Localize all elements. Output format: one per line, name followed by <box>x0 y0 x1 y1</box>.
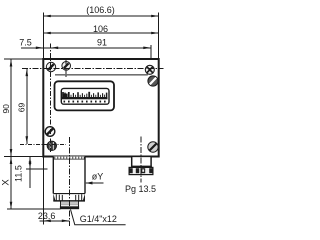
arrow 69 bottom <box>26 136 29 144</box>
dash-dot horizontal centerline through top screws <box>22 68 164 70</box>
ext line y=167.8 (11.5) <box>26 168 48 170</box>
svg-text:(106.6): (106.6) <box>86 5 115 15</box>
arrow 23.6 left <box>43 220 51 223</box>
left dim line 90/X <box>10 59 12 209</box>
top edge extension left <box>4 58 43 60</box>
dimension line 91 <box>51 47 151 49</box>
arrow 106 left <box>43 32 51 35</box>
screw c2 bottom-left lower <box>47 141 56 150</box>
extension line for 91 right <box>150 45 152 75</box>
svg-text:X: X <box>1 179 12 186</box>
G1/4 leader line <box>71 209 126 224</box>
fitting hex band <box>53 194 85 201</box>
svg-text:90: 90 <box>1 104 11 114</box>
arrow 91 left <box>51 47 59 50</box>
svg-text:91: 91 <box>97 38 107 48</box>
dash-dot centerline gland <box>140 137 142 183</box>
arrow 90 top <box>10 59 13 67</box>
arrows <box>10 15 159 222</box>
svg-text:G1/4"x12: G1/4"x12 <box>80 214 117 224</box>
dashed ext bottom screw centerline <box>20 144 66 146</box>
svg-text:11.5: 11.5 <box>14 165 24 182</box>
dim line 11.5 <box>29 157 31 188</box>
arrow oY <box>86 182 93 185</box>
dash-dot centerline screw1 <box>50 44 52 153</box>
window outer frame <box>55 81 115 110</box>
arrow (106.6) left <box>43 15 51 18</box>
svg-text:7.5: 7.5 <box>19 37 32 47</box>
scale baseline <box>62 97 108 99</box>
arrow X bottom <box>10 202 13 210</box>
left edge extension down <box>42 157 44 225</box>
dash-dot centerline fitting <box>68 137 70 226</box>
screw c1 bottom-left <box>45 127 55 137</box>
body outline <box>43 59 158 157</box>
arrow 69 top <box>26 69 29 77</box>
dim line 23.6 <box>40 220 70 222</box>
bottom edge extension left <box>4 156 43 158</box>
arrow 91 right <box>143 47 151 50</box>
inner cover line <box>55 74 148 76</box>
screw s1 top-left <box>46 62 55 71</box>
fitting knurl band <box>53 156 85 159</box>
window inner frame <box>61 88 109 104</box>
arrow 90 bottom <box>10 149 13 157</box>
dimension line (106.6) <box>43 15 158 17</box>
screw A top-right <box>145 65 154 74</box>
cable gland hex nut <box>129 167 153 174</box>
stem bottom extension <box>7 208 61 210</box>
screw s2 <box>62 62 71 71</box>
arrow X top <box>10 157 13 165</box>
arrow 11.5 bottom <box>29 162 32 170</box>
oY arrow line <box>86 182 104 184</box>
arrow 23.6 right <box>62 220 70 223</box>
scale minor marks below <box>64 101 106 103</box>
left dim line 69 <box>26 69 28 144</box>
extension line right (top dims) <box>158 13 160 60</box>
svg-text:69: 69 <box>17 103 27 113</box>
svg-text:106: 106 <box>93 24 108 34</box>
svg-text:23.6: 23.6 <box>38 211 56 221</box>
screw B right edge <box>148 76 158 86</box>
dash-dot centerline screw2 <box>65 60 67 79</box>
fitting body sides <box>53 157 85 194</box>
dimension line 106 <box>43 32 158 34</box>
svg-text:Pg 13.5: Pg 13.5 <box>125 184 156 194</box>
thread stem <box>60 201 79 209</box>
arrow 106 right <box>151 32 159 35</box>
arrow 11.5 top <box>29 157 32 165</box>
extension line left (top dims) <box>42 13 44 60</box>
scale ticks <box>63 92 107 97</box>
arrow (106.6) right <box>151 15 159 18</box>
dimension texts <box>1 5 157 224</box>
svg-text:øY: øY <box>92 172 104 182</box>
cable gland body <box>129 156 153 174</box>
scale left cluster blob <box>62 94 67 98</box>
arrow 7.5 <box>36 47 44 50</box>
screw C bottom-right <box>148 142 158 152</box>
dimension line 7.5 <box>21 47 51 49</box>
